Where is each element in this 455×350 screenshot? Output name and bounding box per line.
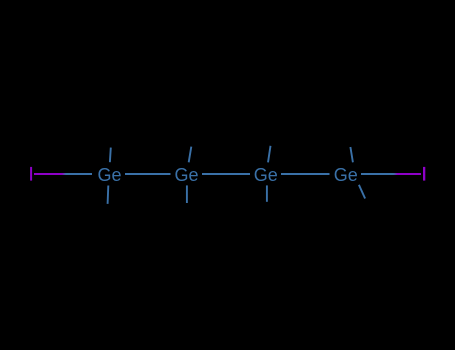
svg-text:Ge: Ge [174, 165, 198, 185]
svg-text:Ge: Ge [254, 165, 278, 185]
svg-text:Ge: Ge [97, 165, 121, 185]
svg-text:Ge: Ge [334, 165, 358, 185]
